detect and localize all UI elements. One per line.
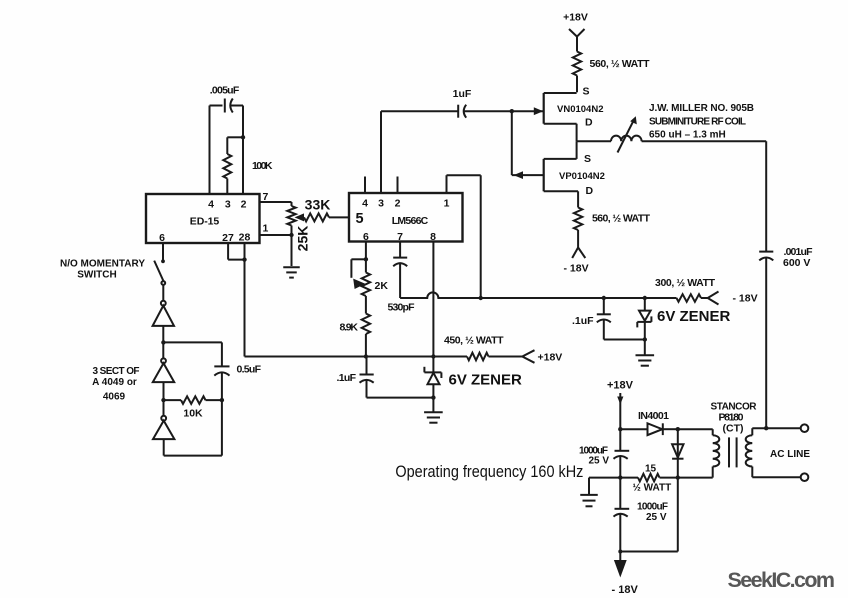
svg-text:+18V: +18V — [538, 352, 563, 364]
svg-text:.1uF: .1uF — [572, 315, 594, 327]
svg-text:AC LINE: AC LINE — [770, 449, 810, 460]
svg-text:ED-15: ED-15 — [190, 216, 220, 228]
svg-text:4: 4 — [208, 199, 214, 211]
svg-text:VP0104N2: VP0104N2 — [559, 171, 605, 182]
svg-text:3 SECT OF: 3 SECT OF — [93, 366, 140, 377]
svg-text:1uF: 1uF — [453, 88, 472, 100]
svg-text:LM566C: LM566C — [392, 215, 429, 227]
svg-text:3: 3 — [378, 198, 384, 210]
svg-text:28: 28 — [239, 232, 251, 244]
svg-text:6: 6 — [159, 232, 165, 244]
svg-text:560, ½ WATT: 560, ½ WATT — [590, 58, 651, 70]
svg-text:2K: 2K — [375, 280, 389, 292]
svg-text:450, ½ WATT: 450, ½ WATT — [444, 335, 504, 347]
svg-text:J.W. MILLER NO. 905B: J.W. MILLER NO. 905B — [649, 103, 754, 114]
svg-text:4069: 4069 — [103, 392, 126, 403]
svg-text:VN0104N2: VN0104N2 — [557, 104, 603, 115]
svg-text:25 V: 25 V — [646, 512, 667, 523]
svg-text:530pF: 530pF — [388, 302, 416, 314]
svg-text:.1uF: .1uF — [337, 372, 357, 384]
svg-text:27: 27 — [222, 232, 234, 244]
svg-text:1: 1 — [263, 223, 269, 235]
svg-text:10K: 10K — [183, 408, 203, 420]
svg-text:- 18V: - 18V — [612, 584, 639, 596]
svg-text:+18V: +18V — [563, 12, 588, 24]
svg-text:- 18V: - 18V — [564, 263, 589, 275]
svg-text:15: 15 — [645, 464, 657, 475]
svg-text:25 V: 25 V — [589, 456, 610, 467]
svg-text:SeekIC.com: SeekIC.com — [728, 568, 836, 592]
svg-text:4: 4 — [362, 198, 368, 210]
svg-text:A 4049 or: A 4049 or — [92, 377, 137, 388]
svg-text:1000uF: 1000uF — [637, 502, 668, 513]
svg-text:D: D — [585, 117, 593, 129]
svg-text:25K: 25K — [295, 226, 311, 252]
svg-text:8.9K: 8.9K — [340, 322, 359, 334]
svg-text:2: 2 — [241, 199, 247, 211]
svg-text:6V ZENER: 6V ZENER — [657, 308, 731, 325]
svg-text:Operating frequency 160 kHz: Operating frequency 160 kHz — [395, 462, 583, 481]
svg-text:6: 6 — [363, 231, 369, 243]
svg-text:300, ½ WATT: 300, ½ WATT — [655, 277, 716, 289]
svg-text:0.5uF: 0.5uF — [237, 364, 262, 376]
svg-text:SUBMINITURE RF COIL: SUBMINITURE RF COIL — [649, 117, 746, 128]
svg-text:7: 7 — [397, 231, 403, 243]
svg-text:33K: 33K — [305, 197, 331, 213]
svg-text:- 18V: - 18V — [733, 293, 758, 305]
svg-text:560, ½ WATT: 560, ½ WATT — [592, 213, 651, 225]
svg-text:D: D — [586, 185, 594, 197]
svg-text:650 uH – 1.3 mH: 650 uH – 1.3 mH — [649, 130, 726, 141]
svg-text:600 V: 600 V — [783, 257, 810, 269]
svg-text:3: 3 — [225, 199, 231, 211]
svg-text:6V ZENER: 6V ZENER — [449, 372, 523, 389]
svg-text:2: 2 — [395, 198, 401, 210]
svg-text:5: 5 — [355, 211, 363, 227]
svg-text:1: 1 — [444, 198, 450, 210]
svg-text:8: 8 — [430, 231, 436, 243]
svg-text:(CT): (CT) — [723, 423, 744, 435]
svg-text:SWITCH: SWITCH — [77, 270, 116, 281]
svg-text:N/O MOMENTARY: N/O MOMENTARY — [60, 259, 145, 270]
svg-text:.005uF: .005uF — [210, 85, 240, 97]
svg-text:IN4001: IN4001 — [638, 410, 669, 422]
svg-text:+18V: +18V — [607, 380, 634, 392]
svg-text:S: S — [584, 153, 591, 165]
svg-text:100K: 100K — [252, 160, 273, 172]
svg-text:½ WATT: ½ WATT — [633, 483, 672, 494]
svg-text:S: S — [583, 86, 590, 98]
